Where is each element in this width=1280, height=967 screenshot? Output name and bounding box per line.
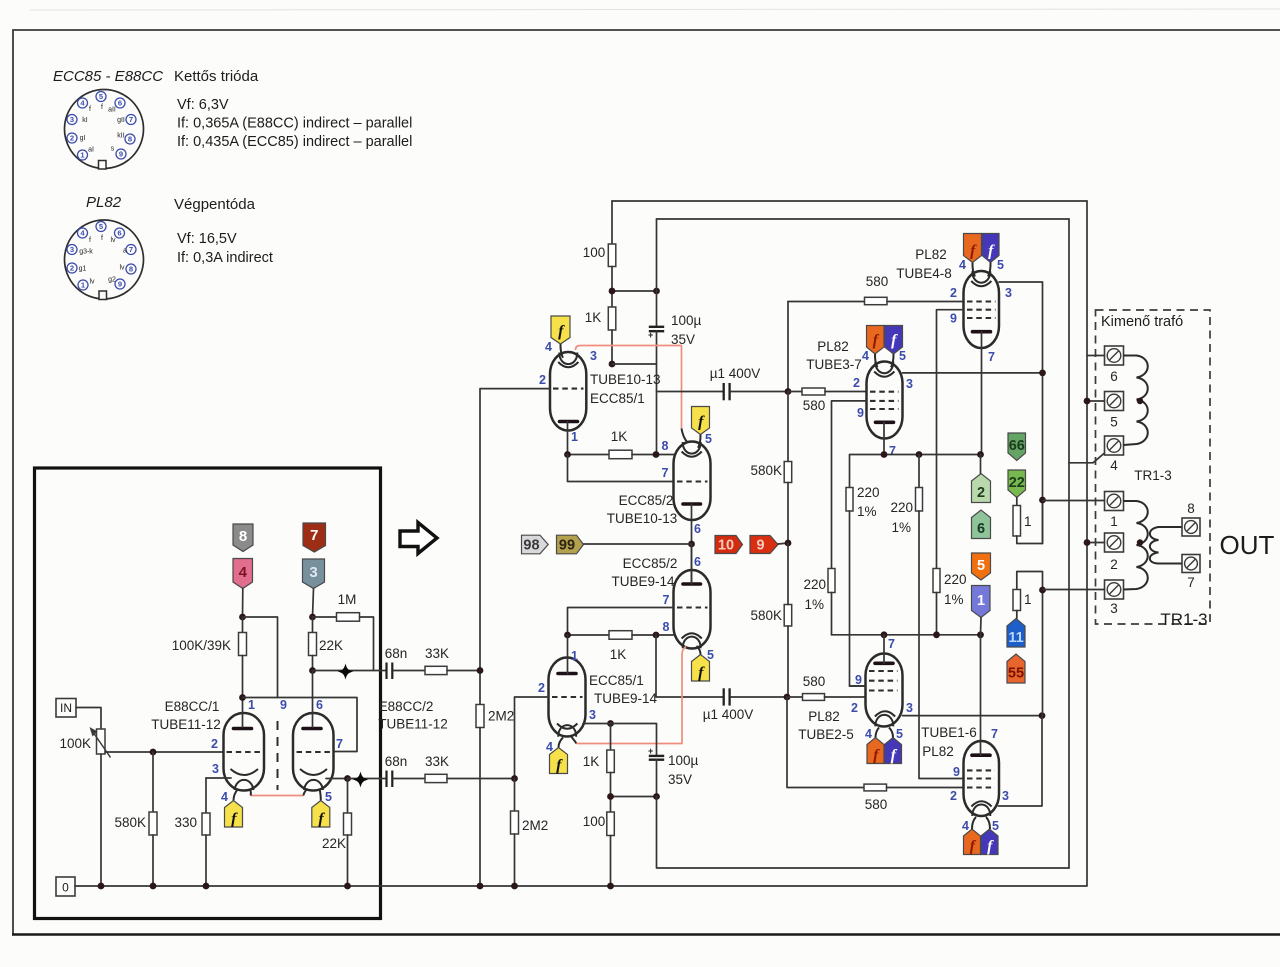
- wire pin6 lower: [691, 544, 693, 584]
- svg-text:6: 6: [118, 99, 122, 108]
- svg-text:580: 580: [865, 797, 888, 812]
- resistor 1K stage1 plate: [608, 307, 616, 364]
- svg-text:220: 220: [803, 577, 826, 592]
- svg-text:5: 5: [705, 432, 712, 446]
- flag 9: [750, 536, 778, 554]
- svg-text:5: 5: [992, 819, 999, 833]
- resistor 100 stage1: [608, 201, 616, 307]
- triode E88CC/1 TUBE11-12 left half: [224, 713, 265, 791]
- wire grid pin2 TUBE10-13: [480, 389, 550, 671]
- svg-text:1%: 1%: [891, 520, 911, 535]
- internal shield divider pin 9: [277, 721, 279, 790]
- svg-text:1M: 1M: [338, 592, 357, 607]
- svg-text:PL82: PL82: [817, 339, 849, 354]
- svg-text:PL82: PL82: [922, 744, 954, 759]
- flag 99: [557, 535, 584, 554]
- flag 8 gray: [233, 524, 253, 552]
- phase marker star upper: [338, 664, 354, 680]
- primary winding upper: [1124, 356, 1148, 446]
- flag f orange TUBE2-5: [867, 738, 884, 765]
- svg-text:Végpentóda: Végpentóda: [174, 196, 256, 213]
- big hollow arrow symbol: [400, 523, 437, 554]
- svg-text:ECC85/1: ECC85/1: [590, 391, 645, 406]
- socket1 pin 9: [116, 149, 126, 159]
- wire B+ feed to transformer: [1086, 201, 1088, 886]
- svg-text:8: 8: [128, 135, 132, 144]
- resistor 22K upper: [309, 617, 317, 671]
- svg-text:6: 6: [694, 522, 701, 536]
- capacitor 68n upper: [387, 663, 393, 680]
- triode ECC85/1 TUBE9-14: [549, 658, 586, 737]
- svg-text:a: a: [123, 248, 127, 255]
- svg-text:580K: 580K: [750, 608, 782, 623]
- capacitor u1 400V upper: [657, 383, 789, 400]
- wire cathode right to 22K: [326, 778, 348, 780]
- resistor 580K lower: [784, 543, 792, 697]
- svg-text:580K: 580K: [114, 815, 146, 830]
- resistor 33K upper: [393, 666, 480, 674]
- pentode PL82 TUBE4-8: [964, 271, 1000, 348]
- junction output node stage1: [688, 541, 695, 548]
- svg-text:E88CC/1: E88CC/1: [165, 699, 220, 714]
- svg-text:gII: gII: [117, 117, 125, 124]
- socket2 pin 5: [96, 222, 106, 232]
- svg-text:2: 2: [851, 701, 858, 715]
- svg-text:9: 9: [855, 673, 862, 687]
- svg-text:aII: aII: [108, 107, 116, 114]
- svg-text:g1: g1: [79, 266, 87, 273]
- svg-text:E88CC/2: E88CC/2: [379, 699, 434, 714]
- svg-text:ECC85/1: ECC85/1: [589, 673, 644, 688]
- socket1 pin 3: [67, 115, 77, 125]
- svg-text:9: 9: [953, 765, 960, 779]
- svg-text:1%: 1%: [857, 504, 877, 519]
- wire cathode left to 330: [206, 777, 231, 779]
- socket2 pin 1: [78, 280, 88, 290]
- junction ground 100: [607, 883, 614, 890]
- svg-text:3: 3: [906, 377, 913, 391]
- svg-text:g3-k: g3-k: [79, 249, 93, 256]
- socket2 pin 9: [115, 279, 125, 289]
- heater pin lead right tube pin4: [304, 789, 308, 796]
- svg-text:7: 7: [889, 444, 896, 458]
- wire cathode pin3 stage2: [583, 724, 657, 756]
- svg-text:99: 99: [559, 538, 575, 554]
- junction cathode node stage2: [607, 720, 614, 727]
- junction anode node left: [239, 614, 246, 621]
- svg-text:68n: 68n: [385, 646, 408, 661]
- resistor 2M2 upper: [476, 671, 484, 887]
- resistor 580 TUBE4-8 grid: [788, 297, 964, 304]
- svg-text:TUBE9-14: TUBE9-14: [594, 691, 658, 706]
- wire plate pin3 TUBE3-7: [903, 372, 1043, 374]
- junction bus 220b: [916, 451, 923, 458]
- flag 22: [1008, 470, 1026, 498]
- junction anode node right: [309, 614, 316, 621]
- svg-text:66: 66: [1009, 438, 1025, 454]
- svg-text:580: 580: [866, 274, 889, 289]
- svg-text:TUBE11-12: TUBE11-12: [378, 717, 448, 732]
- svg-text:8: 8: [129, 265, 133, 274]
- junction terminal 2 tap: [1084, 539, 1091, 546]
- junction coupling node upper: [309, 667, 316, 674]
- svg-text:4: 4: [962, 819, 969, 833]
- svg-text:1K: 1K: [610, 647, 627, 662]
- svg-text:2: 2: [70, 264, 74, 273]
- value label 220 1% a: [857, 485, 880, 519]
- scan artifact faint top line: [30, 9, 1280, 10]
- svg-text:7: 7: [662, 466, 669, 480]
- junction sense node upper: [1039, 497, 1046, 504]
- svg-text:Kettős trióda: Kettős trióda: [174, 68, 259, 85]
- heater wire red input pair: [251, 795, 304, 797]
- svg-text:4: 4: [221, 790, 228, 804]
- junction pin1 node: [239, 694, 246, 701]
- phase marker star lower: [353, 772, 369, 788]
- wire cathode bus lower: [832, 634, 981, 636]
- svg-text:9: 9: [950, 312, 957, 326]
- socket1 pin 6: [115, 98, 125, 108]
- svg-text:1: 1: [1024, 514, 1032, 529]
- svg-text:ECC85/2: ECC85/2: [623, 556, 678, 571]
- heater pin leads TUBE2-5: [876, 728, 894, 738]
- flag f input right: [312, 801, 330, 828]
- svg-text:6: 6: [977, 521, 985, 537]
- svg-text:kII: kII: [117, 133, 124, 140]
- svg-text:3: 3: [1005, 286, 1012, 300]
- wire pin8 to u1 lower: [656, 635, 723, 697]
- resistor 1 sense lower: [1013, 572, 1043, 716]
- svg-text:8: 8: [239, 528, 247, 545]
- junction decoupling left: [609, 288, 616, 295]
- svg-text:ECC85 - E88CC: ECC85 - E88CC: [53, 68, 163, 85]
- svg-text:100µ: 100µ: [671, 313, 702, 328]
- svg-text:2: 2: [538, 681, 545, 695]
- svg-text:4: 4: [239, 564, 248, 581]
- svg-text:98: 98: [523, 538, 539, 554]
- terminal 4: [1105, 436, 1124, 455]
- wire plate pin3 TUBE1-6: [999, 716, 1043, 806]
- svg-text:f: f: [89, 237, 91, 244]
- heater pin lead ECC85/2 pin4: [682, 429, 688, 443]
- resistor 220 1% d: [933, 569, 940, 635]
- svg-text:4: 4: [862, 349, 869, 363]
- wire 99 to output node: [584, 543, 692, 545]
- resistor 22K lower: [344, 779, 352, 887]
- svg-text:5: 5: [1110, 415, 1118, 430]
- svg-text:2: 2: [950, 789, 957, 803]
- triode ECC85/2 TUBE10-13: [674, 442, 711, 521]
- wire decoupling node: [612, 290, 657, 292]
- wire to transformer terminal 1: [1043, 500, 1105, 502]
- svg-text:TUBE11-12: TUBE11-12: [151, 717, 221, 732]
- pentode PL82 TUBE1-6: [964, 741, 1000, 816]
- wire cathode pin7 TUBE2-5: [883, 635, 885, 664]
- junction bus TUBE3-7: [881, 451, 888, 458]
- svg-text:2: 2: [977, 485, 985, 501]
- svg-text:0: 0: [62, 881, 69, 895]
- junction terminal 5 tap: [1084, 398, 1091, 405]
- svg-text:µ1 400V: µ1 400V: [703, 707, 754, 722]
- junction coupling 33K node: [477, 667, 484, 674]
- junction plate node lower pair: [1039, 712, 1046, 719]
- flag f heater TUBE10-13: [551, 316, 570, 344]
- flag 6 green: [972, 510, 991, 539]
- svg-text:1: 1: [1110, 514, 1118, 529]
- wire bus to flag 2: [980, 455, 982, 474]
- svg-text:5: 5: [896, 727, 903, 741]
- triode ECC85/2 TUBE9-14: [674, 570, 711, 649]
- junction u1 lower node: [784, 694, 791, 701]
- junction winding tap 5: [1137, 398, 1143, 404]
- resistor 1K stage2 cathode: [607, 724, 615, 813]
- junction cathode right node: [344, 775, 351, 782]
- svg-text:TUBE9-14: TUBE9-14: [611, 574, 675, 589]
- flag f input left: [225, 801, 243, 828]
- svg-text:7: 7: [129, 245, 133, 254]
- svg-text:2: 2: [211, 737, 218, 751]
- svg-text:lv: lv: [89, 279, 95, 286]
- junction bias node: [785, 540, 792, 547]
- svg-text:5: 5: [997, 258, 1004, 272]
- wire cathode pin7 TUBE3-7: [883, 422, 885, 454]
- heater wire red stage1: [576, 346, 682, 429]
- svg-text:330: 330: [174, 815, 197, 830]
- svg-text:lv: lv: [110, 237, 116, 244]
- wire grid pin2 stage2: [515, 697, 549, 779]
- input stage enclosure box: [35, 468, 381, 919]
- svg-text:6: 6: [694, 555, 701, 569]
- svg-text:7: 7: [663, 593, 670, 607]
- wire coupling node to 68n: [313, 670, 387, 672]
- socket2 pin 8: [126, 264, 136, 274]
- wire cathode ground link stage2: [611, 796, 657, 798]
- resistor 580 TUBE1-6 grid: [787, 697, 964, 791]
- svg-text:220: 220: [944, 572, 967, 587]
- svg-text:3: 3: [589, 708, 596, 722]
- flag 3 slate blue: [303, 559, 325, 589]
- junction pin8 stage2: [653, 632, 660, 639]
- flag f blue TUBE2-5: [885, 738, 902, 765]
- svg-text:33K: 33K: [425, 754, 449, 769]
- flag f blue TUBE3-7: [885, 326, 903, 355]
- svg-text:ECC85/2: ECC85/2: [619, 493, 674, 508]
- socket2 pin 6: [115, 228, 125, 238]
- svg-text:4: 4: [959, 258, 966, 272]
- heater pin leads TUBE1-6: [972, 817, 990, 829]
- junction ground 2M2 lower: [511, 883, 518, 890]
- socket2 pin 7: [126, 245, 136, 255]
- terminal 7: [1182, 555, 1200, 573]
- svg-text:TUBE10-13: TUBE10-13: [607, 511, 678, 526]
- svg-text:1K: 1K: [585, 310, 602, 325]
- heater pin lead TUBE10-13 pin4: [560, 344, 563, 358]
- svg-text:TUBE4-8: TUBE4-8: [896, 266, 952, 281]
- svg-text:3: 3: [1110, 601, 1118, 616]
- flag 11 blue: [1007, 619, 1025, 648]
- junction pin1 stage2: [564, 632, 571, 639]
- resistor 220 1% b: [916, 455, 964, 779]
- svg-text:7: 7: [988, 350, 995, 364]
- wire pot bottom to ground bus: [100, 754, 102, 886]
- svg-text:7: 7: [336, 737, 343, 751]
- wire pin1 stage2 plate: [567, 635, 569, 674]
- junction decoupling right: [653, 288, 660, 295]
- flag f blue TUBE1-6: [981, 829, 998, 855]
- svg-text:4: 4: [545, 340, 552, 354]
- svg-text:2: 2: [1110, 557, 1118, 572]
- svg-text:22: 22: [1009, 475, 1025, 491]
- junction ground pot: [98, 883, 105, 890]
- socket2 pin 2: [67, 263, 77, 273]
- capacitor u1 400V lower: [724, 688, 787, 705]
- svg-text:55: 55: [1008, 666, 1024, 682]
- svg-text:1%: 1%: [944, 592, 964, 607]
- wire pin6 to output node: [691, 504, 693, 584]
- svg-text:2: 2: [539, 373, 546, 387]
- capacitor 100u 35V stage2: [648, 746, 664, 797]
- resistor 580 TUBE3-7 grid: [788, 388, 867, 395]
- svg-text:580K: 580K: [750, 463, 782, 478]
- svg-text:1: 1: [571, 430, 578, 444]
- svg-text:Kimenő trafó: Kimenő trafó: [1101, 314, 1183, 330]
- resistor 100 stage2: [607, 812, 615, 886]
- svg-text:IN: IN: [60, 701, 72, 715]
- resistor 100K/39K: [239, 617, 247, 698]
- wire flag 3 to node: [313, 589, 314, 618]
- svg-text:100K: 100K: [59, 736, 91, 751]
- flag 1 periwinkle: [972, 586, 991, 618]
- svg-text:2: 2: [853, 376, 860, 390]
- svg-text:100: 100: [583, 814, 606, 829]
- svg-text:3: 3: [1002, 789, 1009, 803]
- flag f orange TUBE4-8: [964, 234, 982, 263]
- svg-text:6: 6: [316, 698, 323, 712]
- svg-text:4: 4: [865, 727, 872, 741]
- wire pin1 to pin7 bridge: [243, 698, 358, 752]
- resistor 1 sense upper: [1013, 498, 1043, 544]
- svg-text:If: 0,365A (E88CC) indirect –: If: 0,365A (E88CC) indirect – parallel: [177, 116, 412, 132]
- svg-text:3: 3: [70, 115, 74, 124]
- junction pin1 1K: [564, 451, 571, 458]
- wire terminal 4 feed lower leg: [1068, 463, 1070, 868]
- heater pin lead stage2 pin4: [559, 738, 564, 748]
- resistor 1K stage1 cathode link: [568, 450, 674, 459]
- flag 55 orange: [1007, 654, 1025, 683]
- capacitor 100u 35V stage1: [648, 219, 664, 364]
- wire flag 4 to node: [242, 589, 244, 618]
- flag f orange TUBE3-7: [867, 326, 885, 355]
- terminal 5: [1105, 392, 1124, 411]
- junction grid node stage2: [511, 775, 518, 782]
- svg-text:8: 8: [662, 439, 669, 453]
- svg-text:580: 580: [803, 674, 826, 689]
- svg-text:f: f: [101, 104, 103, 111]
- wire cathode pin7 TUBE4-8: [981, 332, 983, 455]
- junction wiper node: [150, 749, 157, 756]
- wire pin7 feedback stage2: [568, 608, 674, 636]
- svg-text:g2: g2: [108, 277, 116, 284]
- junction bus TUBE4-8: [977, 451, 984, 458]
- wire tap terminal 2: [1087, 542, 1105, 544]
- svg-text:µ1 400V: µ1 400V: [710, 366, 761, 381]
- svg-text:5: 5: [899, 349, 906, 363]
- svg-text:7: 7: [991, 727, 998, 741]
- flag f ECC85/2 lower: [692, 655, 710, 682]
- wire pin1 plate to node: [242, 698, 244, 727]
- flag 7 dark red: [303, 523, 326, 552]
- value label 220 1% c: [803, 577, 826, 612]
- svg-text:580: 580: [803, 398, 826, 413]
- svg-text:1: 1: [248, 698, 255, 712]
- junction ground 580K: [150, 883, 157, 890]
- heater pin lead ECC85/2 lower pin5: [697, 646, 701, 655]
- heater pin lead left tube pin5: [249, 789, 252, 796]
- junction ground 2M2 upper: [477, 883, 484, 890]
- socket1 pin 4: [78, 98, 88, 108]
- heater pin lead right tube pin5: [320, 789, 321, 801]
- svg-text:8: 8: [663, 620, 670, 634]
- svg-text:PL82: PL82: [808, 709, 840, 724]
- resistor 1K stage2 link: [568, 631, 674, 640]
- value label 100u 35V stage2: [668, 753, 699, 787]
- heater pin lead left tube pin4: [234, 789, 239, 801]
- wire grid node column: [787, 302, 789, 392]
- svg-text:TUBE10-13: TUBE10-13: [590, 372, 661, 387]
- tube socket diagram PL82: [65, 220, 144, 300]
- flag 4 pink: [233, 559, 253, 589]
- capacitor 68n lower: [387, 771, 393, 788]
- resistor 2M2 lower: [511, 779, 519, 887]
- svg-text:8: 8: [1187, 501, 1195, 516]
- wire screen pin9 TUBE4-8: [937, 310, 964, 569]
- svg-text:TUBE2-5: TUBE2-5: [798, 727, 854, 742]
- flag 2 pale green: [972, 474, 991, 503]
- wire IN to potentiometer: [76, 708, 101, 730]
- wire cathode pin7 TUBE1-6: [980, 635, 982, 755]
- resistor 1M: [313, 613, 374, 671]
- heater pin leads TUBE4-8: [972, 263, 990, 277]
- socket2 electrode labels: [79, 235, 127, 286]
- svg-text:6: 6: [1110, 369, 1118, 384]
- junction cap bottom: [653, 793, 660, 800]
- node 0 terminal: [56, 877, 75, 896]
- junction ground 22K: [344, 883, 351, 890]
- terminal 6: [1105, 346, 1124, 365]
- tube socket diagram ECC85/E88CC: [65, 90, 144, 170]
- svg-text:33K: 33K: [425, 646, 449, 661]
- svg-text:Vf: 16,5V: Vf: 16,5V: [177, 231, 237, 247]
- svg-text:9: 9: [119, 150, 123, 159]
- flag 66: [1008, 433, 1026, 461]
- svg-text:100K/39K: 100K/39K: [172, 638, 231, 653]
- value label 220 1% b: [890, 500, 913, 535]
- resistor 220 1% a: [846, 488, 866, 687]
- junction bus 220d: [933, 631, 940, 638]
- wire terminal 4 feed: [1069, 219, 1105, 463]
- svg-text:220: 220: [857, 485, 880, 500]
- svg-text:5: 5: [325, 790, 332, 804]
- svg-text:1K: 1K: [611, 429, 628, 444]
- svg-text:Vf: 6,3V: Vf: 6,3V: [177, 97, 229, 113]
- resistor 220 1% c: [828, 569, 835, 635]
- svg-text:1: 1: [571, 649, 578, 663]
- svg-text:PL82: PL82: [915, 247, 947, 262]
- wire cathode to 68n lower: [348, 778, 387, 780]
- junction pin8 1K: [653, 451, 660, 458]
- junction plate node upper pair: [1039, 370, 1046, 377]
- resistor 580K input: [149, 752, 157, 886]
